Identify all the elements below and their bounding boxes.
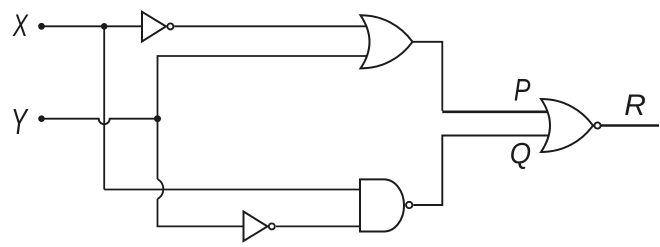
wire X branch vertical down (103, 26, 105, 189)
terminal Y (38, 115, 45, 122)
junction on Y wire (154, 115, 161, 122)
wire X input to inverter U1 (42, 25, 143, 27)
inverter U4 (bottom NOT gate) (244, 212, 275, 242)
wire U4 output to NAND U3 input 2 (276, 225, 360, 227)
terminal X (38, 23, 45, 30)
label Q (510, 138, 531, 171)
wire U1 output to OR gate U2 input 1 (174, 25, 369, 27)
label R (624, 89, 646, 122)
wire Y branch vertical down to inverter U4 (158, 199, 244, 226)
svg-text:X: X (12, 7, 29, 43)
label X (12, 7, 29, 43)
inverter U1 (top NOT gate) (142, 12, 173, 42)
OR gate U2 (361, 15, 413, 68)
wire R output (601, 124, 659, 126)
wire node P : OR gate U2 output to NOR gate U5 input 1 (412, 42, 442, 111)
svg-text:P: P (514, 72, 531, 107)
label P (514, 72, 531, 107)
svg-text:R: R (624, 89, 646, 122)
junction on X wire (101, 23, 108, 30)
wire to NAND U3 input 1 (104, 189, 360, 191)
wire Y branch vertical up to OR gate U2 input 2 (158, 56, 370, 179)
label Y (11, 101, 29, 142)
NAND gate U3 (360, 179, 412, 231)
svg-text:Q: Q (510, 138, 531, 171)
wire Y branch hop over NAND input wire (158, 179, 164, 199)
wire Y input with hop over X branch (42, 119, 158, 125)
svg-text:Y: Y (11, 101, 29, 142)
wire node Q : NAND U3 output to NOR gate U5 input 2 (413, 136, 551, 206)
NOR gate U5 (541, 99, 601, 152)
